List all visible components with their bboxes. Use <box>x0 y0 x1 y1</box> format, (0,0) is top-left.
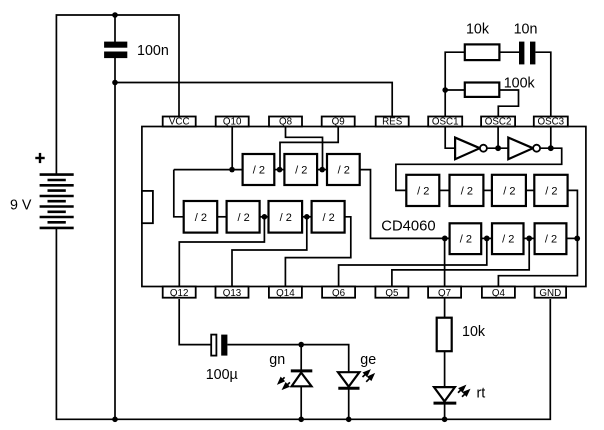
svg-text:/ 2: / 2 <box>461 185 473 197</box>
svg-text:100µ: 100µ <box>206 367 238 383</box>
svg-text:10k: 10k <box>466 22 490 38</box>
svg-text:rt: rt <box>477 386 486 402</box>
svg-text:/ 2: / 2 <box>417 185 429 197</box>
svg-text:/ 2: / 2 <box>237 212 249 224</box>
svg-text:gn: gn <box>269 352 285 368</box>
svg-text:VCC: VCC <box>169 117 190 128</box>
svg-text:/ 2: / 2 <box>545 185 557 197</box>
svg-text:9 V: 9 V <box>10 198 32 214</box>
svg-text:RES: RES <box>382 117 403 128</box>
svg-text:/ 2: / 2 <box>503 185 515 197</box>
svg-text:/ 2: / 2 <box>322 212 334 224</box>
svg-text:OSC2: OSC2 <box>485 117 512 128</box>
svg-text:Q6: Q6 <box>332 288 346 299</box>
svg-text:Q12: Q12 <box>170 288 189 299</box>
svg-text:/ 2: / 2 <box>295 165 307 177</box>
svg-text:100n: 100n <box>137 43 169 59</box>
svg-text:Q13: Q13 <box>223 288 242 299</box>
svg-text:OSC3: OSC3 <box>537 117 564 128</box>
svg-text:CD4060: CD4060 <box>381 218 435 234</box>
svg-text:/ 2: / 2 <box>460 234 472 246</box>
svg-text:ge: ge <box>360 352 376 368</box>
svg-text:Q5: Q5 <box>385 288 399 299</box>
svg-text:OSC1: OSC1 <box>432 117 459 128</box>
svg-text:Q4: Q4 <box>492 288 506 299</box>
svg-text:Q8: Q8 <box>279 117 293 128</box>
svg-text:/ 2: / 2 <box>253 165 265 177</box>
svg-text:100k: 100k <box>504 76 536 92</box>
svg-text:/ 2: / 2 <box>545 234 557 246</box>
svg-text:GND: GND <box>539 288 561 299</box>
svg-text:/ 2: / 2 <box>502 234 514 246</box>
svg-text:Q10: Q10 <box>223 117 242 128</box>
svg-text:Q9: Q9 <box>332 117 345 128</box>
svg-text:Q7: Q7 <box>438 288 451 299</box>
svg-text:10k: 10k <box>462 324 486 340</box>
svg-text:/ 2: / 2 <box>338 165 350 177</box>
svg-text:Q14: Q14 <box>276 288 295 299</box>
svg-text:/ 2: / 2 <box>280 212 292 224</box>
svg-text:10n: 10n <box>514 22 538 38</box>
svg-text:/ 2: / 2 <box>195 212 207 224</box>
